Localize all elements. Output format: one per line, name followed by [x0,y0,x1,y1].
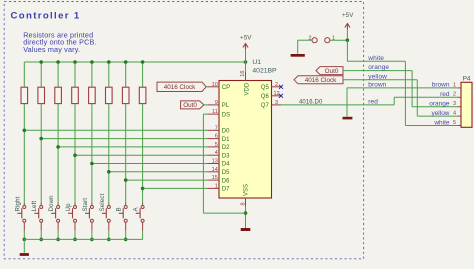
svg-text:3: 3 [275,100,278,106]
svg-text:D2: D2 [222,145,230,151]
svg-text:Left: Left [31,201,38,212]
svg-text:white: white [367,55,384,62]
svg-text:white: white [433,119,450,126]
svg-text:Controller 1: Controller 1 [11,11,81,22]
svg-text:2: 2 [453,92,456,98]
svg-text:orange: orange [429,101,450,108]
svg-text:Up: Up [65,203,72,212]
svg-text:brown: brown [368,82,386,89]
svg-text:+5V: +5V [342,12,354,19]
svg-text:3: 3 [453,101,456,107]
svg-text:D7: D7 [222,187,230,193]
svg-text:U1: U1 [252,59,261,66]
svg-text:6: 6 [215,134,218,140]
svg-text:Out0: Out0 [325,68,339,75]
svg-text:4: 4 [215,150,218,156]
svg-text:P4: P4 [463,75,471,82]
svg-text:DS: DS [222,112,230,118]
svg-text:D5: D5 [222,170,230,176]
svg-text:9: 9 [215,100,218,106]
svg-text:orange: orange [368,64,389,71]
svg-text:red: red [440,91,450,98]
svg-text:D6: D6 [222,178,230,184]
svg-text:16: 16 [240,71,246,77]
svg-text:4016.D0: 4016.D0 [299,99,323,105]
svg-text:1: 1 [453,82,456,88]
svg-text:1: 1 [215,183,218,189]
svg-text:Q5: Q5 [261,85,270,91]
svg-text:5: 5 [215,142,218,148]
svg-text:D0: D0 [222,129,230,135]
svg-text:B: B [116,207,123,211]
svg-text:Down: Down [48,195,55,212]
svg-text:Values may vary.: Values may vary. [23,45,80,54]
svg-text:2: 2 [275,82,278,88]
svg-text:4: 4 [453,111,456,117]
svg-text:PL: PL [222,103,230,109]
svg-text:brown: brown [432,82,450,89]
svg-text:Start: Start [82,198,89,212]
svg-text:VDD: VDD [244,82,250,95]
svg-text:4021BP: 4021BP [252,67,277,74]
svg-text:Q7: Q7 [261,103,270,109]
svg-text:VSS: VSS [243,184,249,196]
svg-text:Select: Select [99,194,106,212]
svg-text:11: 11 [212,109,218,115]
svg-text:7: 7 [215,125,218,131]
svg-text:red: red [368,98,378,105]
svg-text:CP: CP [222,85,230,91]
svg-text:1: 1 [332,35,335,41]
svg-text:10: 10 [212,82,218,88]
svg-text:Out0: Out0 [183,102,197,109]
svg-text:yellow: yellow [431,110,449,117]
svg-text:13: 13 [212,159,218,165]
svg-text:14: 14 [212,167,218,173]
svg-text:D1: D1 [222,137,230,143]
svg-text:15: 15 [212,175,218,181]
svg-text:5: 5 [453,120,456,126]
svg-text:12: 12 [274,91,280,97]
svg-text:D3: D3 [222,153,230,159]
svg-text:+5V: +5V [240,35,252,42]
svg-text:yellow: yellow [368,73,387,80]
svg-text:Right: Right [14,196,21,211]
svg-text:4016 Clock: 4016 Clock [164,84,196,91]
svg-text:D4: D4 [222,162,230,168]
svg-text:8: 8 [240,202,246,205]
svg-text:Q6: Q6 [261,94,270,100]
svg-text:4016 Clock: 4016 Clock [305,77,337,84]
